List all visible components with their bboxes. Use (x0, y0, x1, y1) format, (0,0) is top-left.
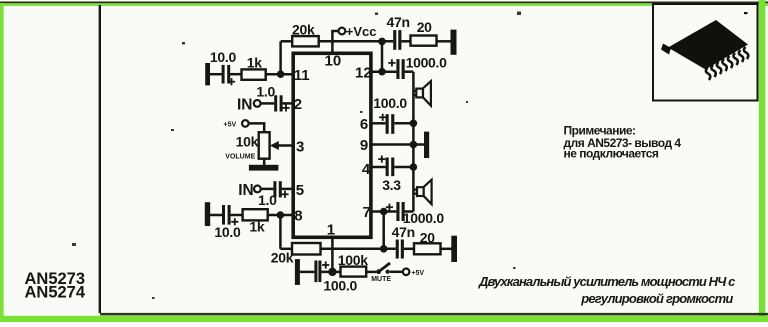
node: pin 12 junction (378, 68, 386, 76)
svg-text:12: 12 (355, 64, 372, 81)
svg-text:VOLUME: VOLUME (225, 154, 255, 161)
speaker (upper) (414, 81, 431, 106)
wire: pin 12 to C 1000.0 (371, 70, 397, 73)
svg-text:IN: IN (238, 182, 254, 199)
svg-text:10.0: 10.0 (210, 49, 237, 65)
capacitor 47n (bottom) (396, 240, 404, 259)
wire: upper input ground bar to C 10.0 (210, 73, 222, 76)
node: Vcc junction (378, 38, 386, 46)
wire: C 10.0 to R 1k (230, 73, 242, 76)
svg-text:4: 4 (362, 161, 371, 178)
svg-text:11: 11 (294, 67, 310, 84)
capacitor 1000.0 (upper output) (388, 59, 404, 79)
svg-text:20: 20 (417, 19, 432, 35)
wire: +5V terminal to volume pot (249, 123, 265, 132)
pot wiper arrow to pin 3 (270, 141, 279, 150)
ground bar (lower input) (205, 202, 210, 226)
svg-text:регулировкой громкости: регулировкой громкости (580, 291, 733, 306)
svg-text:3.3: 3.3 (382, 177, 401, 193)
wire: mute ground bar to C 100.0 (300, 271, 315, 274)
svg-text:1: 1 (327, 222, 335, 239)
IC package drawing (SOP) (661, 12, 748, 80)
svg-text:100k: 100k (338, 252, 368, 268)
svg-text:AN5274: AN5274 (25, 284, 86, 302)
wire: C 10.0 lower to R 1k (230, 214, 242, 217)
node: pin 6 junction (410, 120, 418, 128)
wire: speaker column vertical (412, 72, 415, 212)
svg-text:7: 7 (363, 204, 371, 221)
capacitor 10.0 (lower input) (222, 205, 238, 225)
wire: feedback vertical from pin 11 node to 20k (279, 41, 282, 74)
resistor 1k (lower input) (243, 209, 268, 220)
wire: C 1000.0 lower to column (405, 210, 414, 213)
resistor 20k (feedback, top) (292, 36, 319, 46)
wire: R 100k to switch (366, 271, 376, 274)
wire: C 100.0 to column (394, 122, 413, 125)
resistor 20 (bottom) (414, 243, 441, 254)
ground bar (top right) (451, 30, 457, 55)
wire: Vcc node down to pin 12 node (381, 41, 384, 71)
svg-text:+Vcc: +Vcc (346, 24, 377, 39)
wire: pin 7 to C 1000.0 lower (371, 210, 397, 213)
wire: pot bottom to ground (263, 159, 266, 166)
wire: lower input ground bar to C 10.0 (210, 214, 222, 217)
svg-text:20: 20 (420, 229, 435, 245)
node: mute junction (328, 268, 336, 276)
node: pin 4 junction (410, 163, 418, 171)
capacitor 1.0 (upper) (274, 95, 289, 111)
svg-text:8: 8 (294, 207, 302, 224)
potentiometer 10k VOLUME (259, 132, 270, 159)
note text (564, 123, 682, 160)
wire: pin 8 node down to bottom rail (279, 215, 282, 249)
wire: R 20 to top ground bar (437, 40, 452, 43)
wire: C 3.3 to column (394, 166, 413, 169)
svg-text:1k: 1k (247, 55, 262, 71)
resistor 100k (mute) (341, 267, 367, 277)
svg-text:не подключается: не подключается (564, 147, 659, 161)
wire: C 100.0 to mute node (321, 271, 340, 274)
ground bar (mute) (295, 259, 300, 285)
wire: IN lower terminal to C 1.0 lower (261, 188, 274, 191)
svg-text:MUTE: MUTE (371, 276, 391, 283)
svg-text:1.0: 1.0 (256, 84, 275, 100)
svg-text:10.0: 10.0 (214, 224, 241, 240)
wire: Vcc rail horizontal (281, 40, 293, 43)
ground (volume pot) (249, 165, 279, 171)
capacitor 3.3 (pin 4) (378, 156, 394, 177)
wire: pin 9 to ground bar (371, 143, 425, 146)
node: bottom rail junction (380, 245, 388, 253)
wire: bottom rail horizontal (280, 248, 292, 251)
wire: R 1k to pin 11 (266, 73, 293, 76)
svg-text:9: 9 (360, 137, 368, 154)
svg-text:47n: 47n (392, 224, 415, 240)
svg-text:1000.0: 1000.0 (406, 54, 448, 70)
wire: pot wiper to pin 3 (276, 144, 293, 147)
wire: pin 4 to C 3.3 (371, 166, 386, 169)
svg-text:20k: 20k (271, 250, 294, 266)
wire: C 1000.0 to speaker column (405, 70, 414, 73)
wire: R 20 lower to bottom right bar (441, 248, 452, 251)
terminal +5V (mute) (403, 269, 410, 276)
wire: IN upper terminal to C 1.0 (261, 102, 275, 105)
svg-text:3: 3 (296, 138, 304, 155)
capacitor 100.0 (pin 6) (379, 114, 394, 134)
svg-text:+5V: +5V (224, 121, 237, 128)
svg-text:10k: 10k (236, 134, 259, 150)
title text (478, 274, 736, 306)
svg-text:10: 10 (325, 52, 342, 69)
speaker (lower) (414, 180, 432, 205)
svg-text:100.0: 100.0 (373, 95, 407, 111)
switch MUTE (376, 269, 381, 274)
node: pin 7 junction (380, 208, 388, 216)
node: pin 11 junction (277, 70, 285, 78)
svg-text:6: 6 (360, 116, 368, 133)
svg-text:47n: 47n (387, 14, 410, 30)
wire: C 1.0 lower to pin 5 (282, 188, 293, 191)
ground bar (upper input) (205, 63, 210, 85)
svg-text:5: 5 (296, 182, 304, 199)
svg-text:IN: IN (237, 97, 253, 114)
svg-text:Двухканальный усилитель мощнос: Двухканальный усилитель мощности НЧ с (478, 274, 736, 289)
page frame green border (0, 2, 768, 4)
wire: pin 6 to C 100.0 (371, 122, 386, 125)
wire: +Vcc terminal to pin 10 (332, 31, 338, 53)
op-amp IC body (AN5273) (293, 53, 371, 237)
column divider line (99, 5, 101, 313)
capacitor 1.0 (lower) (273, 181, 288, 198)
wire: pin 1 down to mute node (331, 237, 334, 272)
node: pin 9 junction (410, 141, 418, 149)
capacitor 100.0 (mute) (314, 261, 329, 283)
ground bar (pin 9) (424, 132, 429, 158)
svg-text:20k: 20k (292, 22, 315, 38)
capacitor 47n (top) (393, 30, 401, 50)
ground bar (bottom right) (451, 236, 457, 262)
resistor 20 (top) (411, 36, 437, 46)
svg-text:2: 2 (294, 96, 302, 113)
svg-text:100.0: 100.0 (323, 278, 357, 294)
scan specks (72, 12, 521, 300)
capacitor 1000.0 (lower output) (386, 202, 405, 221)
svg-text:1.0: 1.0 (258, 192, 277, 208)
wire: pin 7 node down to bottom rail (382, 212, 385, 249)
wire: 47n lower to R 20 lower (404, 248, 414, 251)
node: pin 8 junction (277, 211, 285, 219)
capacitor 10.0 (upper input) (222, 65, 235, 85)
wire: switch to +5V terminal (390, 271, 403, 274)
resistor 20k (feedback, bottom) (292, 243, 321, 255)
wire: R 1k lower to pin 8 (268, 214, 293, 217)
resistor 1k (upper input) (242, 69, 266, 79)
IC package illustration box (653, 4, 758, 101)
svg-text:+5V: +5V (411, 270, 424, 277)
svg-text:1k: 1k (249, 218, 264, 234)
wire: 47n to R 20 (401, 40, 410, 43)
terminal +Vcc (339, 28, 346, 35)
wire: C 1.0 to pin 2 (283, 102, 293, 105)
